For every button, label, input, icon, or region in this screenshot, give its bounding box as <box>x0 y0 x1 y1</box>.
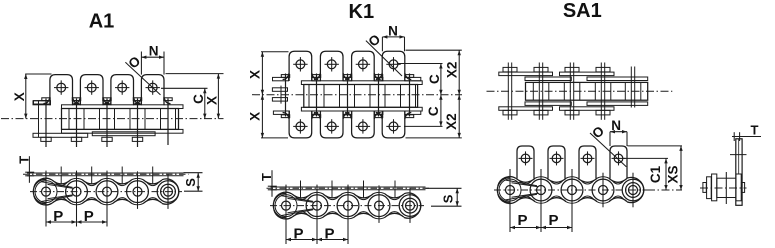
K1 plan pin 1 <box>285 74 287 117</box>
A1 P extension line 1 <box>45 171 47 227</box>
K1 bottom attachment 2 lug plate <box>320 111 343 138</box>
K1 plan bottom foot lug4 <box>374 111 383 114</box>
K1 plan left outer plate lower <box>272 98 287 102</box>
A1 plan pin washer 1 <box>42 98 50 101</box>
A1 side band dashed centerline <box>23 173 189 175</box>
A1 plan roller divider 6 <box>144 109 146 130</box>
A1 dim N line <box>141 56 164 58</box>
K1 side roller pin3 <box>337 195 359 217</box>
K1 dim S ext bottom <box>431 205 462 207</box>
SA1 side link plate waist 3 bottom <box>578 198 597 202</box>
SA1 plan pin cap top 4 <box>596 67 610 72</box>
SA1 plan roller divider 8 <box>640 82 642 100</box>
A1 plan pin washer 2 <box>72 98 80 101</box>
K1 dim N line <box>382 36 404 38</box>
K1 side band hole mark 4 <box>394 181 396 199</box>
SA1 attachment tab 1 <box>517 146 534 179</box>
SA1 side pin4 center mark <box>602 173 604 208</box>
K1 side plate arc pin4 <box>373 192 386 194</box>
svg-text:XS: XS <box>666 165 681 183</box>
K1 side link plate waist 3 bottom <box>354 213 373 217</box>
K1 top attachment 1 lug plate <box>289 51 312 81</box>
A1 attachment 4 lug plate <box>141 75 164 106</box>
SA1 dim XS line <box>680 146 682 190</box>
K1 side link plate waist 4 top <box>385 194 404 198</box>
A1 plan roller divider 5 <box>129 109 131 130</box>
A1 P arrows <box>46 220 51 223</box>
SA1 side roller pin4 <box>592 179 614 201</box>
SA1 plan chain body <box>526 82 648 100</box>
SA1 plan roller divider 4 <box>579 82 581 100</box>
K1 dim X line <box>261 52 263 138</box>
svg-text:S: S <box>441 194 456 203</box>
SA1 plan pin cap top 2 <box>534 67 548 72</box>
A1 attachment 4 lug bend curls <box>135 97 142 104</box>
A1 plan foot bolt 1 <box>41 137 51 141</box>
SA1 side link plate waist 1 bottom <box>516 198 535 202</box>
K1 side band tick at pin 3 <box>347 185 349 191</box>
K1 dim S ext top <box>426 187 462 189</box>
SA1 plan inner plate strip bottom A <box>525 102 571 106</box>
K1 side link plate waist 1 top <box>292 194 311 198</box>
SA1 side chain left end plate <box>497 178 509 202</box>
A1 plan roller divider 4 <box>114 109 116 130</box>
svg-text:K1: K1 <box>349 1 375 23</box>
K1 bottom attachment 3 lug hole <box>359 122 368 131</box>
K1 dim X2 bottom line <box>458 95 460 138</box>
A1 plan lug2 top foot <box>73 101 81 104</box>
A1 side band hole mark 2 <box>91 167 93 185</box>
SA1 plan roller divider 1 <box>532 82 534 100</box>
A1 side plate end cap pin5 <box>162 179 179 204</box>
SA1 side plate end cap pin5 <box>627 177 644 202</box>
A1 dim C line <box>204 88 206 118</box>
A1 side band hole mark 1 <box>60 167 62 185</box>
SA1 plan inner plate strip top A <box>525 77 571 81</box>
K1 plan top foot lug1 <box>273 77 289 80</box>
K1 side band tick at pin 1 <box>285 185 287 191</box>
K1 dim C bottom line <box>440 95 442 127</box>
K1 side pin5 center mark <box>409 188 411 223</box>
K1 plan pin washer bottom 5 <box>405 115 413 118</box>
A1 plan pin washer 5 <box>164 98 172 101</box>
K1 top attachment 3 lug plate <box>352 51 375 81</box>
A1 side band hole mark 3 <box>121 167 123 185</box>
svg-text:A1: A1 <box>89 10 115 32</box>
A1 side plate arc pin1 <box>34 178 52 187</box>
A1 side link plate waist 3 bottom <box>113 199 132 203</box>
K1 side plate arc pin2 <box>311 192 324 194</box>
K1 P extension line 1 <box>285 185 287 244</box>
SA1 P extension line 3 <box>571 169 573 232</box>
K1 dim T line <box>271 170 273 197</box>
svg-text:T: T <box>751 123 759 138</box>
K1 plan pin washer bottom 2 <box>312 115 320 118</box>
A1 attachment 1 lug plate <box>50 75 73 106</box>
SA1 P arrows <box>510 226 515 229</box>
K1 plan pin washer top 2 <box>312 75 320 78</box>
SA1 plan roller divider 2 <box>548 82 550 100</box>
K1 bottom attachment 1 lug hole <box>296 122 305 131</box>
A1 side pin4 center mark <box>137 174 139 209</box>
SA1 end view inner plate left <box>712 174 717 201</box>
SA1 end view axis <box>700 187 747 189</box>
K1 plan pin washer bottom 4 <box>374 115 382 118</box>
K1 bottom attachment 1 lug bend curls <box>283 113 290 120</box>
SA1 plan roller divider 7 <box>624 82 626 100</box>
K1 side plate arc pin1 <box>274 192 292 201</box>
K1 side plate arc pin3 <box>342 192 355 194</box>
svg-text:P: P <box>293 226 303 243</box>
K1 dim S line <box>456 188 458 206</box>
K1 plan roller divider 6 <box>384 85 386 108</box>
svg-text:C1: C1 <box>648 165 663 183</box>
A1 dim S ext bottom <box>184 190 203 192</box>
SA1 attachment tab 4 <box>610 146 627 179</box>
A1 plan roller divider 1 <box>68 109 70 130</box>
K1 P extension line 3 <box>347 185 349 244</box>
K1 plan roller divider 5 <box>369 85 371 108</box>
A1 plan foot bolt 4 <box>132 137 142 141</box>
svg-text:P: P <box>324 226 334 243</box>
K1 bottom attachment 1 lug plate <box>289 111 312 138</box>
SA1 label O leader <box>590 133 626 167</box>
K1 plan pin washer top 4 <box>374 75 382 78</box>
A1 plan pin 2 <box>76 99 78 148</box>
A1 plan left link verticals <box>38 101 40 138</box>
SA1 end view dim T line <box>732 136 761 138</box>
A1 plan pin washer 4 <box>133 98 141 101</box>
K1 side pin4 center mark <box>378 188 380 223</box>
K1 dim C top line <box>440 64 442 95</box>
A1 plan pin 3 <box>106 99 108 148</box>
svg-text:S: S <box>183 178 198 187</box>
A1 plan foot strip B <box>92 132 155 136</box>
K1 side band tick at pin 2 <box>316 185 318 191</box>
SA1 tab 1 hole <box>521 154 530 163</box>
K1 plan top foot lug4 <box>374 77 383 80</box>
SA1 side roller pin3 <box>561 179 583 201</box>
A1 side band hole mark 4 <box>152 167 154 185</box>
A1 side pin1 hole <box>42 187 51 196</box>
svg-text:C: C <box>426 106 441 116</box>
A1 plan pin 1 <box>45 99 47 148</box>
K1 plan pin 2 <box>316 74 318 117</box>
svg-text:X2: X2 <box>444 113 459 130</box>
svg-text:T: T <box>16 156 31 164</box>
K1 side link plate waist 2 bottom <box>323 213 342 217</box>
K1 top attachment 1 lug hole <box>296 60 305 69</box>
K1 plan pin washer bottom 3 <box>343 115 351 118</box>
K1 top attachment 4 lug plate <box>382 51 405 81</box>
K1 side pin1 hole <box>282 201 291 210</box>
K1 top attachment 2 lug bend curls <box>314 73 321 80</box>
A1 plan roller divider 2 <box>83 109 85 130</box>
A1 P extension line 2 <box>76 171 78 227</box>
SA1 plan outer plate strip bottom B <box>560 107 615 111</box>
K1 bottom attachment 4 lug plate <box>382 111 405 138</box>
K1 plan chain centerline <box>252 94 462 96</box>
SA1 side link plate waist 4 bottom <box>609 198 627 202</box>
A1 dim T line <box>28 156 30 183</box>
K1 plan roller divider 4 <box>354 85 356 108</box>
SA1 side link plate waist 2 top <box>547 178 566 182</box>
A1 side link plate waist 4 top <box>144 180 163 184</box>
A1 P dimension line <box>46 221 107 223</box>
SA1 plan pin 3 <box>569 63 571 120</box>
K1 plan left link vertical <box>280 86 282 104</box>
A1 side roller pin3 <box>96 181 118 203</box>
svg-text:X: X <box>247 70 262 79</box>
A1 plan foot bolt 2 <box>71 137 81 141</box>
A1 side band tick at pin 1 <box>45 171 47 177</box>
A1 attachment 1 lug hole <box>57 83 66 92</box>
A1 attachment 1 lug bend curls <box>43 97 50 104</box>
SA1 plan outer plate strip top A <box>499 72 553 76</box>
svg-text:C: C <box>427 74 442 84</box>
K1 side offset link taper <box>281 196 313 202</box>
K1 plan top foot lug3 <box>343 77 352 80</box>
SA1 dim C1 line <box>665 158 667 190</box>
SA1 P extension line 2 <box>540 169 542 232</box>
K1 side chain left end plate <box>273 193 285 217</box>
K1 top attachment 4 lug bend curls <box>376 73 383 80</box>
A1 plan pin 5 <box>167 99 169 146</box>
K1 bottom attachment 2 lug bend curls <box>314 113 321 120</box>
SA1 side plate arc pin4 <box>597 177 610 179</box>
SA1 side pin5 center mark <box>632 173 634 208</box>
K1 side link plate waist 3 top <box>354 194 373 198</box>
SA1 tab 2 hole <box>552 154 561 163</box>
K1 dim right ext bottom <box>406 137 462 139</box>
SA1 end view tab inner line <box>738 139 740 174</box>
A1 attachment 2 lug plate <box>80 75 103 106</box>
SA1 end view roller center mark <box>725 172 727 204</box>
K1 P dimension line <box>286 239 348 241</box>
SA1 plan pin 5 <box>630 67 632 108</box>
A1 dim right ext hole <box>161 87 208 89</box>
SA1 plan pin cap bottom 3 <box>565 110 579 115</box>
SA1 end view dim T ticks <box>733 132 735 141</box>
K1 dim X ext top <box>261 51 289 53</box>
A1 plan chain body <box>62 109 179 130</box>
K1 plan pin 4 <box>378 74 380 117</box>
svg-text:SA1: SA1 <box>563 0 602 22</box>
A1 side link plate waist 2 top <box>83 180 102 184</box>
A1 plan pin washer 3 <box>103 98 111 101</box>
A1 attachment 4 lug hole <box>148 83 157 92</box>
svg-text:T: T <box>259 173 274 181</box>
K1 plan left outer plate upper <box>272 88 287 92</box>
A1 plan lower plate strip <box>62 129 184 133</box>
SA1 end view inner plate right <box>736 174 741 201</box>
K1 side band tick at pin 4 <box>378 185 380 191</box>
K1 side band hole mark 3 <box>363 181 365 199</box>
A1 dim S ext top <box>184 172 203 174</box>
A1 attachment 2 lug hole <box>87 83 96 92</box>
K1 plan roller divider 7 <box>400 85 402 108</box>
A1 side plate arc pin4 <box>131 178 144 180</box>
SA1 end view outer plate left <box>707 177 712 199</box>
K1 dim right ext hole top <box>397 63 443 65</box>
svg-text:N: N <box>149 43 159 58</box>
K1 side band dashed centerline <box>267 187 431 189</box>
A1 side band tick at pin 2 <box>76 171 78 177</box>
A1 plan lug3 top foot <box>103 101 111 104</box>
SA1 plan pin cap bottom 4 <box>596 110 610 115</box>
SA1 side link plate waist 4 top <box>609 178 627 182</box>
K1 top attachment 3 lug hole <box>359 60 368 69</box>
K1 bottom attachment 3 lug bend curls <box>345 113 352 120</box>
SA1 side plate arc pin1 <box>498 177 516 186</box>
A1 side band tick at pin 4 <box>137 171 139 177</box>
SA1 attachment tab 3 <box>579 146 596 179</box>
A1 attachment 2 lug bend curls <box>74 97 81 104</box>
A1 plan roller divider 3 <box>99 109 101 130</box>
A1 side chain left end plate <box>33 179 45 203</box>
svg-text:X: X <box>204 96 219 105</box>
A1 dim N extension lines <box>140 52 142 75</box>
SA1 side link plate waist 3 top <box>578 178 597 182</box>
SA1 attachment tab 2 <box>548 146 565 179</box>
svg-text:N: N <box>611 118 621 133</box>
K1 top attachment 2 lug plate <box>320 51 343 81</box>
svg-text:X: X <box>247 112 262 121</box>
SA1 dim right ext top <box>628 145 683 147</box>
A1 side roller pin2 <box>66 181 88 203</box>
A1 plan foot bolt 3 <box>102 137 112 141</box>
SA1 plan chain centerline <box>487 90 673 92</box>
svg-text:P: P <box>517 212 527 229</box>
SA1 plan pin cap top 1 <box>503 67 517 72</box>
A1 dim T ticks <box>25 171 34 173</box>
A1 dim X-right line <box>217 74 219 119</box>
A1 attachment 3 lug bend curls <box>104 97 111 104</box>
A1 plan roller divider 8 <box>175 109 177 130</box>
K1 side roller pin2 <box>306 195 328 217</box>
A1 side link plate waist 1 top <box>52 180 71 184</box>
K1 plan roller divider 2 <box>323 85 325 108</box>
A1 plan left outer plate upper <box>33 101 51 105</box>
A1 dim X-left line <box>25 74 27 119</box>
A1 side plate arc pin2 <box>70 178 83 180</box>
SA1 side link plate waist 2 bottom <box>547 198 566 202</box>
A1 dim right ext top <box>166 73 224 75</box>
K1 side roller pin5 <box>399 195 421 217</box>
K1 side link plate waist 4 bottom <box>385 213 404 217</box>
SA1 plan outer plate strip top B <box>560 72 615 76</box>
SA1 dim N ext lines <box>609 132 611 146</box>
A1 dim X-left extension top <box>25 73 51 75</box>
SA1 side pin1 hole <box>506 186 515 195</box>
K1 side link plate waist 1 bottom <box>292 213 311 217</box>
SA1 tab 4 hole <box>614 154 623 163</box>
K1 plan chain body <box>304 85 418 108</box>
A1 side pin5 center mark <box>167 174 169 209</box>
SA1 plan roller divider 6 <box>610 82 612 100</box>
A1 attachment 3 lug plate <box>111 75 134 106</box>
K1 dim X2 top line <box>458 50 460 94</box>
K1 side band hole mark 1 <box>300 181 302 199</box>
svg-text:P: P <box>84 208 94 225</box>
SA1 end view roller body <box>717 178 736 197</box>
SA1 dim N line <box>610 131 627 133</box>
K1 plan pin washer bottom 1 <box>281 115 289 118</box>
SA1 side offset link taper <box>505 180 537 186</box>
SA1 P extension line 1 <box>509 169 511 232</box>
K1 top attachment 1 lug bend curls <box>283 73 290 80</box>
A1 side plate arc pin3 <box>101 178 114 180</box>
K1 side roller pin4 <box>368 195 390 217</box>
K1 bottom attachment 4 lug bend curls <box>376 113 383 120</box>
SA1 side roller pin5 <box>622 179 644 201</box>
A1 plan pin 4 <box>137 99 139 148</box>
K1 label O leader <box>366 41 402 76</box>
SA1 plan roller divider 5 <box>594 82 596 100</box>
K1 plan pin washer top 3 <box>343 75 351 78</box>
K1 dim T ticks <box>268 185 277 187</box>
K1 top attachment 4 lug hole <box>389 60 398 69</box>
A1 side roller pin5 <box>157 181 179 203</box>
SA1 end view tab hole mark <box>730 154 747 156</box>
K1 dim right ext top <box>406 49 462 51</box>
svg-text:N: N <box>388 23 398 38</box>
SA1 plan pin 1 <box>507 63 509 120</box>
SA1 tab 3 hole <box>583 154 592 163</box>
K1 plan upper plate strip <box>301 81 422 85</box>
svg-text:P: P <box>548 212 558 229</box>
A1 side link plate waist 2 bottom <box>83 199 102 203</box>
K1 plan bottom foot lug4 right <box>405 111 421 114</box>
K1 plan pin 3 <box>347 74 349 117</box>
A1 side link plate waist 1 bottom <box>52 199 71 203</box>
K1 top attachment 3 lug bend curls <box>345 73 352 80</box>
A1 plan foot strip A <box>33 133 88 137</box>
SA1 plan pin cap bottom 2 <box>534 110 548 115</box>
A1 side roller pin4 <box>127 181 149 203</box>
K1 dim right ext hole bottom <box>404 125 443 127</box>
K1 plan roller divider 8 <box>415 85 417 108</box>
SA1 end view pin head left <box>703 183 706 193</box>
SA1 end view pin head right <box>741 183 744 193</box>
K1 plan bottom foot lug3 <box>343 111 352 114</box>
A1 P extension line 3 <box>106 171 108 227</box>
K1 top attachment 2 lug hole <box>327 60 336 69</box>
SA1 side link plate waist 1 top <box>516 178 535 182</box>
K1 side attachment foot band <box>271 186 426 188</box>
K1 P extension line 2 <box>316 185 318 244</box>
K1 bottom attachment 4 lug hole <box>389 122 398 131</box>
K1 plan bottom foot lug1 <box>273 111 289 114</box>
SA1 plan roller divider 3 <box>563 82 565 100</box>
K1 plan bottom foot lug2 <box>312 111 321 114</box>
K1 plan roller divider 3 <box>339 85 341 108</box>
svg-text:X2: X2 <box>444 62 459 79</box>
A1 plan lug4 top foot <box>134 101 142 104</box>
A1 side attachment foot band <box>27 172 184 174</box>
SA1 plan pin cap top 3 <box>565 67 579 72</box>
K1 plan top foot lug4 right <box>405 77 421 80</box>
SA1 plan pin cap bottom 1 <box>503 110 517 115</box>
SA1 plan outer plate strip bottom A <box>499 107 553 111</box>
A1 side chain centerline <box>30 191 182 193</box>
A1 label O leader <box>125 62 160 95</box>
A1 side band tick at pin 3 <box>106 171 108 177</box>
A1 plan roller divider 7 <box>160 109 162 130</box>
SA1 side roller pin2 <box>530 179 552 201</box>
K1 P arrows <box>286 238 291 241</box>
K1 side band hole mark 2 <box>331 181 333 199</box>
